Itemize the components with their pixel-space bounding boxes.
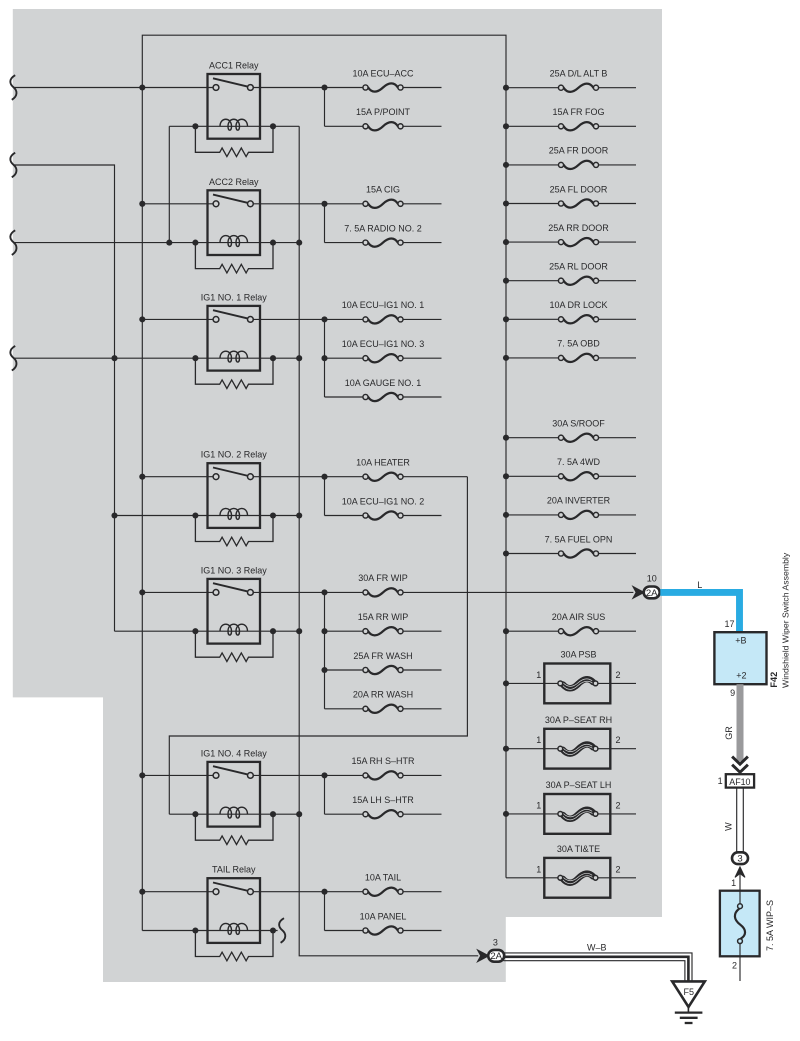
svg-text:2: 2 <box>732 960 737 970</box>
node left bus junction <box>139 201 145 207</box>
fuse 25A FR DOOR <box>558 161 598 169</box>
svg-text:30A P–SEAT RH: 30A P–SEAT RH <box>545 715 612 725</box>
svg-text:10A GAUGE NO. 1: 10A GAUGE NO. 1 <box>345 378 422 388</box>
fuse 20A INVERTER <box>558 511 598 519</box>
svg-text:1: 1 <box>536 670 541 680</box>
svg-text:15A FR FOG: 15A FR FOG <box>552 107 604 117</box>
wire ACC1 switch output row <box>253 87 362 89</box>
relay ACC1 Relay: switch contact <box>213 78 249 87</box>
wire 7. 5A FUEL OPN feed <box>506 553 558 555</box>
wire IG1 NO.2 switch feed <box>142 476 213 478</box>
fuse 20A AIR SUS <box>558 627 598 635</box>
fuse 30A FR WIP <box>363 588 403 596</box>
svg-text:TAIL Relay: TAIL Relay <box>212 865 256 875</box>
relay ACC1 Relay: resistor <box>195 126 273 156</box>
svg-text:15A CIG: 15A CIG <box>366 185 400 195</box>
node bus-30A PSB <box>503 680 509 686</box>
svg-text:F5: F5 <box>684 987 695 997</box>
relay ACC2 Relay: coil-resistor junction left <box>192 240 198 246</box>
wire FR WASH row <box>325 669 363 671</box>
fusible link box 30A PSB <box>544 664 610 704</box>
svg-text:10A HEATER: 10A HEATER <box>356 458 410 468</box>
node bus-20A AIR SUS <box>503 628 509 634</box>
wire IG4 switch output <box>253 774 362 776</box>
relay IG1 NO. 4 Relay: coil-resistor junction left <box>192 811 198 817</box>
fuse 7. 5A OBD <box>558 354 598 362</box>
wire IG1 NO.3 coil row <box>115 630 300 632</box>
connector AF10 box <box>726 774 754 787</box>
fuse 7. 5A RADIO NO. 2 <box>363 238 403 246</box>
relay ACC2 Relay: box <box>208 190 261 255</box>
arrow into WIP-S (up arrow) <box>735 867 745 877</box>
relay ACC1 Relay: coil <box>220 119 248 130</box>
node left bus junction <box>139 474 145 480</box>
svg-text:30A P–SEAT LH: 30A P–SEAT LH <box>546 780 612 790</box>
fuse 25A FL DOOR <box>558 199 598 207</box>
fuse 15A RH S–HTR <box>363 771 403 779</box>
relay IG1 NO. 2 Relay: resistor <box>195 516 273 546</box>
wire GR (gray) from F42 pin 9 <box>737 684 744 761</box>
node fuse branch junction <box>321 889 327 895</box>
fuse 10A PANEL <box>363 926 403 934</box>
relay IG1 NO. 2 Relay: box <box>208 463 261 528</box>
svg-text:3: 3 <box>493 937 498 947</box>
svg-text:15A LH S–HTR: 15A LH S–HTR <box>352 795 414 805</box>
fuse 15A RR WIP <box>363 627 403 635</box>
fuse 10A GAUGE NO. 1 <box>363 393 403 401</box>
wire feed 2 (coil supply) with vertical <box>13 165 115 631</box>
svg-text:F42: F42 <box>769 672 779 688</box>
node bus-7. 5A 4WD <box>503 473 509 479</box>
wire TAIL switch output <box>253 891 362 893</box>
svg-text:+2: +2 <box>736 671 746 681</box>
wire feed 4 (IG1 NO.1 coil row) <box>13 357 299 359</box>
relay TAIL Relay: box <box>208 878 261 943</box>
wire HEATER output to IG1 NO.4 coil frame <box>169 477 467 815</box>
wire 25A D/L ALT B feed <box>506 87 558 89</box>
svg-text:2: 2 <box>616 735 621 745</box>
wire W (white, outlined) from AF10 <box>736 788 738 853</box>
relay IG1 NO. 2 Relay: coil-resistor junction left <box>192 512 198 518</box>
fusible link box 30A P–SEAT LH <box>544 794 610 834</box>
wire ECU-IG1 NO.2 row <box>325 515 363 517</box>
fuse 7. 5A 4WD <box>558 472 598 480</box>
svg-text:GR: GR <box>724 726 734 740</box>
fuse 10A ECU-ACC <box>363 83 403 91</box>
relay TAIL Relay: coil-resistor junction left <box>192 927 198 933</box>
node left bus junction <box>139 889 145 895</box>
node bus-30A S/ROOF <box>503 435 509 441</box>
svg-text:2A: 2A <box>490 951 502 962</box>
relay IG1 NO. 3 Relay: box <box>208 579 261 644</box>
svg-text:10A TAIL: 10A TAIL <box>365 873 401 883</box>
fuse box 7.5A WIP-S <box>720 891 760 957</box>
wire 30A TI&TE feed <box>506 877 558 879</box>
wire 15A FR FOG feed <box>506 125 558 127</box>
svg-text:3: 3 <box>737 854 742 865</box>
relay ACC2 Relay: switch contact <box>213 195 249 204</box>
wire P/POINT row <box>325 125 363 127</box>
ground triangle F5 <box>672 981 705 1007</box>
svg-text:10A PANEL: 10A PANEL <box>360 911 407 921</box>
svg-text:1: 1 <box>536 864 541 874</box>
fusible link element 30A PSB <box>558 679 598 689</box>
svg-text:7. 5A 4WD: 7. 5A 4WD <box>557 457 601 467</box>
relay IG1 NO. 3 Relay: coil <box>220 624 248 635</box>
svg-text:2A: 2A <box>646 588 658 599</box>
connector F42 wiper switch box <box>714 632 766 684</box>
relay IG1 NO. 1 Relay: switch contact <box>213 310 249 319</box>
fuse 15A LH S–HTR <box>363 810 403 818</box>
wire 20A AIR SUS feed <box>506 630 558 632</box>
relay TAIL Relay: coil <box>220 923 248 934</box>
wire 20A INVERTER feed <box>506 514 558 516</box>
relay ACC2 Relay: coil <box>220 236 248 247</box>
node bus-7. 5A OBD <box>503 355 509 361</box>
fusible link box 30A P–SEAT RH <box>544 729 610 769</box>
svg-text:1: 1 <box>718 776 723 786</box>
svg-text:10A ECU–ACC: 10A ECU–ACC <box>352 68 414 78</box>
svg-text:25A FL DOOR: 25A FL DOOR <box>550 184 608 194</box>
relay IG1 NO. 4 Relay: resistor <box>195 814 273 844</box>
svg-text:25A FR DOOR: 25A FR DOOR <box>549 146 609 156</box>
relay IG1 NO. 2 Relay: coil-resistor junction right <box>270 512 276 518</box>
svg-text:10A DR LOCK: 10A DR LOCK <box>549 300 607 310</box>
wire IG1 switch feed <box>142 318 213 320</box>
svg-text:30A TI&TE: 30A TI&TE <box>557 844 600 854</box>
wire coil return vertical to ground connector <box>299 126 478 956</box>
gray wire chevron arrows <box>732 757 748 765</box>
fuse 10A TAIL <box>363 888 403 896</box>
node fuse branch junction <box>321 628 327 634</box>
relay IG1 NO. 1 Relay: coil-resistor junction right <box>270 355 276 361</box>
node fuse branch junction <box>321 355 327 361</box>
svg-text:25A FR WASH: 25A FR WASH <box>353 651 412 661</box>
svg-text:25A RL DOOR: 25A RL DOOR <box>549 262 608 272</box>
wire IG1 NO.2 coil row <box>115 515 300 517</box>
node bus-30A P–SEAT LH <box>503 811 509 817</box>
svg-text:2: 2 <box>616 800 621 810</box>
svg-text:7. 5A WIP–S: 7. 5A WIP–S <box>765 900 775 951</box>
svg-text:10: 10 <box>647 574 657 584</box>
fusible link element 30A P–SEAT RH <box>558 744 598 754</box>
svg-text:15A RR WIP: 15A RR WIP <box>358 612 409 622</box>
node coil return junction <box>296 628 302 634</box>
fuse 25A D/L ALT B <box>558 84 598 92</box>
wire LH S-HTR row <box>325 813 363 815</box>
svg-text:25A D/L ALT B: 25A D/L ALT B <box>550 69 608 79</box>
connector 2A (pin 10) <box>644 587 660 599</box>
node coil return junction <box>296 811 302 817</box>
relay IG1 NO. 4 Relay: coil-resistor junction right <box>270 811 276 817</box>
svg-text:W–B: W–B <box>587 942 607 952</box>
svg-text:1: 1 <box>731 878 736 888</box>
connector 2A (pin 3) ground <box>488 950 504 962</box>
ground symbol stem <box>687 1007 689 1012</box>
wire ECU-IG1 NO.3 row <box>325 357 363 359</box>
svg-text:7. 5A FUEL OPN: 7. 5A FUEL OPN <box>545 534 613 544</box>
wire L (blue) to wiper switch <box>660 592 739 633</box>
wire IG1 NO.3 switch feed <box>142 591 213 593</box>
svg-text:+B: +B <box>735 636 746 646</box>
wire ACC1-ACC2 coil link vertical <box>168 126 170 242</box>
node left bus junction <box>139 589 145 595</box>
node bus-25A D/L ALT B <box>503 85 509 91</box>
node coil return junction <box>296 512 302 518</box>
fuse 15A FR FOG <box>558 122 598 130</box>
svg-text:ACC2 Relay: ACC2 Relay <box>209 177 259 187</box>
fuse 25A FR WASH <box>363 666 403 674</box>
fuse 10A ECU–IG1 NO. 1 <box>363 315 403 323</box>
wire 7. 5A OBD feed <box>506 357 558 359</box>
svg-text:30A PSB: 30A PSB <box>560 650 596 660</box>
svg-text:10A ECU–IG1 NO. 3: 10A ECU–IG1 NO. 3 <box>342 339 425 349</box>
wire IG1 NO.4 coil row <box>169 813 299 815</box>
wire break symbol feed 1 <box>10 75 16 100</box>
node bus-7. 5A FUEL OPN <box>503 550 509 556</box>
svg-text:W: W <box>724 822 734 831</box>
wire RR WIP row <box>325 630 363 632</box>
svg-text:IG1 NO. 1 Relay: IG1 NO. 1 Relay <box>201 292 268 302</box>
relay IG1 NO. 2 Relay: switch contact <box>213 468 249 477</box>
fuse 20A RR WASH <box>363 705 403 713</box>
node fuse branch junction <box>321 201 327 207</box>
node fuse branch junction <box>321 589 327 595</box>
svg-text:20A RR WASH: 20A RR WASH <box>353 690 413 700</box>
node coil return junction <box>296 355 302 361</box>
wire ACC2 switch feed <box>142 203 213 205</box>
relay IG1 NO. 3 Relay: coil-resistor junction left <box>192 628 198 634</box>
wire ACC1 coil row <box>169 125 299 127</box>
wire 30A P–SEAT LH feed <box>506 813 558 815</box>
wire IG1 NO.3 switch output (30A FR WIP) <box>253 591 362 593</box>
node fuse branch junction <box>321 667 327 673</box>
svg-text:17: 17 <box>724 619 734 629</box>
svg-text:IG1 NO. 3 Relay: IG1 NO. 3 Relay <box>201 565 268 575</box>
svg-text:IG1 NO. 4 Relay: IG1 NO. 4 Relay <box>201 748 268 758</box>
node coil-supply junction IG1 NO.1 <box>111 355 117 361</box>
wire IG1 NO.3 fuse branch vertical <box>324 592 326 708</box>
node coil-supply junction IG1 NO.2 <box>111 512 117 518</box>
wire TAIL switch feed <box>142 891 213 893</box>
wire 30A P–SEAT RH feed <box>506 748 558 750</box>
svg-text:20A INVERTER: 20A INVERTER <box>547 496 611 506</box>
relay ACC2 Relay: resistor <box>195 243 273 273</box>
wire IG4 switch feed <box>142 774 213 776</box>
fuse 15A CIG <box>363 200 403 208</box>
relay IG1 NO. 1 Relay: box <box>208 306 261 371</box>
relay IG1 NO. 1 Relay: coil <box>220 351 248 362</box>
wire pin1 stub to WIP-S <box>739 875 741 891</box>
relay IG1 NO. 1 Relay: coil-resistor junction left <box>192 355 198 361</box>
node bus-25A FR DOOR <box>503 162 509 168</box>
fuse element WIP-S <box>739 891 741 904</box>
wire top feed line and left bus <box>142 35 506 930</box>
wire 25A FL DOOR feed <box>506 203 558 205</box>
relay TAIL Relay: resistor <box>195 931 273 961</box>
svg-text:7. 5A RADIO NO. 2: 7. 5A RADIO NO. 2 <box>344 223 422 233</box>
fuse 30A S/ROOF <box>558 434 598 442</box>
relay ACC1 Relay: coil-resistor junction left <box>192 123 198 129</box>
wire IG1 NO.1 fuse branch vertical <box>324 319 326 397</box>
fuse 25A RL DOOR <box>558 277 598 285</box>
wire TAIL fuse branch vertical <box>324 892 326 931</box>
node left bus junction <box>139 84 145 90</box>
relay block background panel <box>13 9 662 982</box>
fusible link element 30A TI&TE <box>558 873 598 883</box>
wire IG1 NO.4 fuse branch vertical <box>324 775 326 814</box>
svg-text:1: 1 <box>536 735 541 745</box>
wire IG1 switch output <box>253 318 362 320</box>
relay IG1 NO. 3 Relay: resistor <box>195 631 273 661</box>
fuse 10A HEATER <box>363 473 403 481</box>
relay TAIL Relay: switch contact <box>213 883 249 892</box>
connector arrow ground output <box>477 950 488 962</box>
wire IG1 NO.2 switch output (10A HEATER) <box>253 476 362 478</box>
node fuse branch junction <box>321 772 327 778</box>
node bus-20A INVERTER <box>503 512 509 518</box>
svg-text:20A AIR SUS: 20A AIR SUS <box>552 612 606 622</box>
wire break symbol feed 3 <box>10 230 16 255</box>
svg-text:Windshield Wiper Switch Assemb: Windshield Wiper Switch Assembly <box>780 552 790 688</box>
svg-text:AF10: AF10 <box>729 777 750 787</box>
wire break symbol TAIL coil <box>279 918 285 943</box>
wire below WIP-S (pin 2) <box>739 956 741 981</box>
wire 30A PSB feed <box>506 682 558 684</box>
node left bus junction <box>139 772 145 778</box>
relay IG1 NO. 2 Relay: coil <box>220 508 248 519</box>
wire 7. 5A 4WD feed <box>506 475 558 477</box>
wire W-B (outlined, black core) to ground <box>504 953 693 981</box>
relay IG1 NO. 4 Relay: box <box>208 762 261 827</box>
relay IG1 NO. 3 Relay: coil-resistor junction right <box>270 628 276 634</box>
wire RR WASH row <box>325 708 363 710</box>
relay IG1 NO. 3 Relay: switch contact <box>213 583 249 592</box>
relay IG1 NO. 4 Relay: switch contact <box>213 766 249 775</box>
svg-text:10A ECU–IG1 NO. 1: 10A ECU–IG1 NO. 1 <box>342 300 425 310</box>
svg-text:25A RR DOOR: 25A RR DOOR <box>548 223 609 233</box>
svg-text:ACC1 Relay: ACC1 Relay <box>209 61 259 71</box>
node fuse branch junction <box>321 84 327 90</box>
node ACC coil link junction <box>166 240 172 246</box>
connector arrow FR WIP output <box>633 586 644 598</box>
node bus-25A RR DOOR <box>503 239 509 245</box>
node bus-10A DR LOCK <box>503 316 509 322</box>
wire TAIL coil row <box>142 930 277 932</box>
wire feed 3 (ACC coil supply row) <box>13 242 299 244</box>
wire ACC2 fuse branch vertical <box>324 204 326 243</box>
node bus-25A RL DOOR <box>503 278 509 284</box>
svg-text:15A P/POINT: 15A P/POINT <box>356 107 411 117</box>
wire GAUGE row <box>325 396 363 398</box>
svg-text:2: 2 <box>616 670 621 680</box>
svg-text:1: 1 <box>536 800 541 810</box>
fuse 7. 5A FUEL OPN <box>558 549 598 557</box>
relay ACC1 Relay: coil-resistor junction right <box>270 123 276 129</box>
wire ACC1 fuse branch vertical <box>324 88 326 127</box>
wire 25A RL DOOR feed <box>506 280 558 282</box>
svg-text:IG1 NO. 2 Relay: IG1 NO. 2 Relay <box>201 450 268 460</box>
wire IG1 NO.2 fuse branch vertical <box>324 477 326 516</box>
fusible link box 30A TI&TE <box>544 858 610 898</box>
wire PANEL row <box>325 930 363 932</box>
wire ACC2 switch output <box>253 203 362 205</box>
connector 3 ellipse <box>732 852 748 864</box>
fuse 10A ECU–IG1 NO. 2 <box>363 511 403 519</box>
svg-text:9: 9 <box>730 688 735 698</box>
svg-text:2: 2 <box>616 864 621 874</box>
wire 25A RR DOOR feed <box>506 241 558 243</box>
relay ACC1 Relay: box <box>208 74 261 139</box>
svg-text:L: L <box>697 580 702 590</box>
relay IG1 NO. 1 Relay: resistor <box>195 358 273 388</box>
wire battery feed 1 (to ACC1 switch) <box>13 87 213 89</box>
node fuse branch junction <box>321 316 327 322</box>
wire RADIO row <box>325 242 363 244</box>
node bus-30A P–SEAT RH <box>503 746 509 752</box>
svg-text:15A RH S–HTR: 15A RH S–HTR <box>351 756 415 766</box>
fuse 10A DR LOCK <box>558 315 598 323</box>
relay ACC2 Relay: coil-resistor junction right <box>270 240 276 246</box>
node coil return junction <box>296 240 302 246</box>
wire 30A S/ROOF feed <box>506 437 558 439</box>
fusible link element 30A P–SEAT LH <box>558 809 598 819</box>
wire break symbol feed 2 <box>10 153 16 178</box>
relay IG1 NO. 4 Relay: coil <box>220 807 248 818</box>
relay TAIL Relay: coil-resistor junction right <box>270 927 276 933</box>
svg-text:30A S/ROOF: 30A S/ROOF <box>552 419 605 429</box>
fuse 25A RR DOOR <box>558 238 598 246</box>
node fuse branch junction <box>321 474 327 480</box>
svg-text:10A ECU–IG1 NO. 2: 10A ECU–IG1 NO. 2 <box>342 496 425 506</box>
svg-text:30A FR WIP: 30A FR WIP <box>358 573 408 583</box>
fuse 10A ECU–IG1 NO. 3 <box>363 354 403 362</box>
svg-text:7. 5A OBD: 7. 5A OBD <box>557 339 600 349</box>
wire 10A DR LOCK feed <box>506 318 558 320</box>
fuse 15A P/POINT <box>363 122 403 130</box>
wire break symbol feed 4 <box>10 346 16 371</box>
node left bus junction <box>139 316 145 322</box>
node bus-15A FR FOG <box>503 123 509 129</box>
ground symbol <box>675 1011 703 1013</box>
wire 25A FR DOOR feed <box>506 164 558 166</box>
node bus-25A FL DOOR <box>503 200 509 206</box>
